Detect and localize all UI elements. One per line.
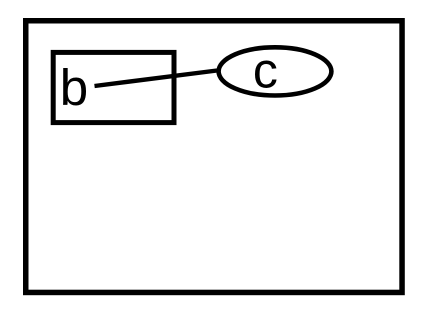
- svg-text:c: c: [253, 42, 278, 98]
- svg-text:b: b: [60, 59, 88, 116]
